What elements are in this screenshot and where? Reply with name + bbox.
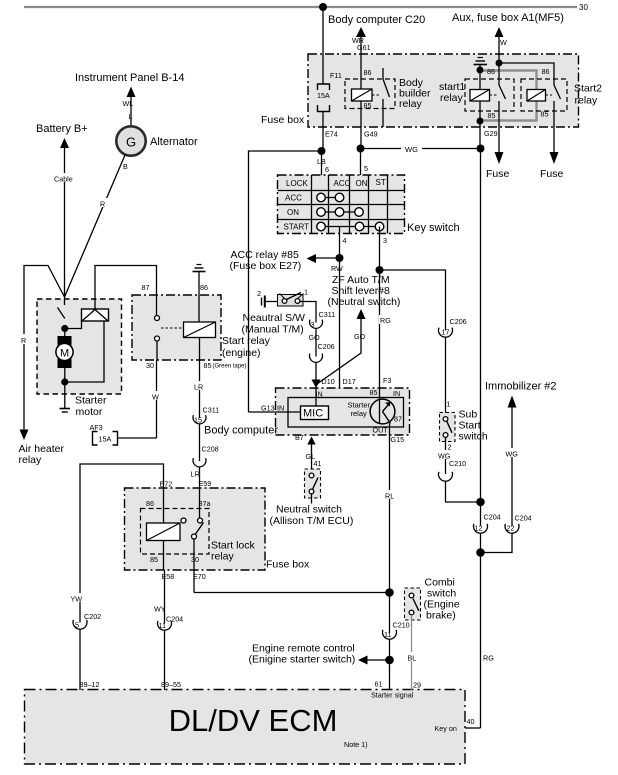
svg-text:Start2: Start2 — [574, 83, 602, 95]
svg-text:85: 85 — [204, 361, 212, 370]
fuse box (start lock relay) background — [125, 488, 266, 570]
svg-text:89–12: 89–12 — [80, 680, 100, 689]
svg-text:DL/DV ECM: DL/DV ECM — [169, 703, 338, 738]
arrow down to Fuse (start1 out) — [495, 152, 504, 164]
svg-text:motor: motor — [76, 406, 103, 418]
svg-text:relay: relay — [440, 92, 464, 104]
svg-text:Body computer C20: Body computer C20 — [328, 14, 425, 26]
node RL/E70 — [385, 588, 394, 597]
svg-text:ST: ST — [376, 178, 386, 187]
svg-text:89–55: 89–55 — [161, 680, 181, 689]
svg-text:(Manual T/M): (Manual T/M) — [242, 324, 304, 336]
neutral S/W terminal symbol — [262, 296, 278, 308]
node WG junction right — [477, 145, 485, 153]
svg-text:87a: 87a — [199, 499, 211, 508]
svg-text:G13: G13 — [261, 404, 275, 413]
wire E70 across to RL node — [194, 592, 390, 594]
svg-text:Instrument Panel B-14: Instrument Panel B-14 — [75, 72, 184, 84]
wire solenoid to 87 — [95, 266, 157, 316]
svg-text:Alternator: Alternator — [150, 136, 198, 148]
svg-text:C204: C204 — [515, 514, 532, 523]
wire RL node to C210 — [389, 593, 391, 634]
node engine remote branch — [385, 656, 394, 665]
svg-text:(Neutral switch): (Neutral switch) — [328, 296, 401, 308]
ground (starter motor) — [64, 382, 66, 408]
svg-text:C311: C311 — [203, 406, 220, 415]
svg-text:86: 86 — [146, 499, 154, 508]
svg-text:15A: 15A — [99, 435, 112, 444]
wire E58 WY down to ECM — [153, 603, 172, 614]
wire G49 to key switch pin5 — [360, 149, 362, 176]
fuse box (top) background — [308, 54, 579, 127]
svg-text:MIC: MIC — [303, 408, 323, 420]
svg-text:29: 29 — [413, 681, 421, 690]
wire to C208 — [199, 424, 201, 461]
wire C206 to sub start pin1 — [445, 337, 447, 413]
svg-text:ON: ON — [287, 208, 299, 217]
svg-text:ON: ON — [356, 179, 368, 188]
svg-text:WL: WL — [123, 99, 134, 108]
svg-text:BL: BL — [408, 654, 417, 663]
arrow to Body computer C20 (WR wire) — [356, 27, 366, 37]
wire D10 to MIC — [315, 388, 317, 406]
MIC box — [301, 406, 329, 420]
connector C206 pin17 — [439, 328, 453, 338]
starter motor contact node (top) — [61, 325, 68, 332]
wire YW loop to E72 — [80, 464, 164, 623]
svg-text:relay: relay — [19, 454, 43, 466]
body builder relay contact — [382, 68, 384, 79]
svg-text:15A: 15A — [317, 91, 330, 100]
connector C206 (GO wire) — [309, 354, 322, 363]
svg-text:START: START — [284, 223, 310, 232]
svg-text:85: 85 — [370, 388, 378, 397]
svg-text:61: 61 — [375, 680, 383, 689]
start relay (engine) coil — [184, 322, 216, 338]
wire sub start pin2 to C210 — [445, 438, 447, 475]
svg-text:Immobilizer #2: Immobilizer #2 — [485, 381, 557, 393]
svg-text:relay: relay — [351, 409, 368, 418]
key switch table grid — [278, 175, 405, 234]
wire OUT/G15 down (RL) — [389, 424, 391, 593]
svg-text:Fuse: Fuse — [540, 168, 564, 180]
start relay (engine) contacts — [155, 316, 160, 321]
svg-text:85: 85 — [364, 101, 372, 110]
svg-text:brake): brake) — [426, 610, 456, 622]
svg-text:Fuse box: Fuse box — [261, 114, 305, 126]
svg-text:RG: RG — [483, 654, 494, 663]
connector C208 — [193, 458, 206, 467]
wire key switch pin3 down — [379, 227, 381, 271]
svg-text:C206: C206 — [450, 317, 467, 326]
solenoid symbol — [82, 309, 109, 321]
svg-text:1: 1 — [447, 400, 451, 409]
svg-text:IN: IN — [393, 389, 400, 398]
svg-text:Neautral S/W: Neautral S/W — [243, 312, 306, 324]
neutral S/W (Manual T/M) switch — [257, 288, 308, 307]
wire WG main vertical (right) — [480, 149, 482, 527]
node pin3 branch — [376, 266, 384, 274]
svg-text:AF3: AF3 — [90, 423, 103, 432]
starter motor switch lever — [58, 308, 65, 319]
svg-text:RG: RG — [380, 316, 391, 325]
starter motor contact node (bottom) — [61, 378, 68, 385]
svg-text:Neutral switch: Neutral switch — [276, 504, 342, 516]
svg-text:G61: G61 — [357, 43, 371, 52]
svg-text:41: 41 — [314, 459, 322, 468]
svg-text:G49: G49 — [364, 130, 378, 139]
svg-text:relay: relay — [399, 98, 423, 110]
svg-text:30: 30 — [579, 3, 588, 12]
svg-text:LR: LR — [191, 470, 200, 479]
svg-text:C208: C208 — [202, 445, 219, 454]
svg-text:YW: YW — [71, 595, 83, 604]
svg-text:G29: G29 — [484, 129, 498, 138]
svg-text:LR: LR — [194, 383, 203, 392]
wire C206 to D10 — [315, 363, 317, 382]
svg-text:Note 1): Note 1) — [344, 740, 368, 749]
wire GO segment — [315, 329, 317, 357]
svg-text:5: 5 — [364, 164, 368, 173]
starter motor box — [37, 299, 122, 394]
wire neutral S/W pin1 to C311/3 — [300, 302, 316, 323]
neutral switch (Allison T/M ECU) — [305, 469, 321, 504]
wire alternator to starter junction — [65, 155, 126, 297]
node RW — [336, 254, 344, 262]
svg-text:E59: E59 — [199, 479, 212, 488]
svg-text:85: 85 — [150, 555, 158, 564]
svg-text:Cable: Cable — [54, 175, 73, 184]
wire LB to key switch pin6 — [321, 151, 323, 175]
svg-text:E70: E70 — [193, 572, 206, 581]
svg-text:Fuse: Fuse — [486, 168, 510, 180]
svg-text:1: 1 — [304, 288, 308, 297]
svg-text:12: 12 — [475, 524, 483, 533]
svg-text:L: L — [129, 112, 133, 121]
svg-text:4: 4 — [343, 236, 347, 245]
svg-text:2: 2 — [257, 289, 261, 298]
ground above 86 — [193, 265, 206, 272]
svg-text:B: B — [123, 162, 128, 171]
svg-text:B7: B7 — [295, 433, 304, 442]
node LB junction — [318, 147, 326, 155]
svg-text:G15: G15 — [391, 435, 405, 444]
body builder relay K1 (dashed outline) — [345, 79, 395, 109]
start2 relay — [521, 67, 602, 152]
wire+arrow to ACC relay — [315, 257, 340, 259]
svg-text:W: W — [500, 38, 507, 47]
svg-text:40: 40 — [467, 717, 475, 726]
svg-text:Starter: Starter — [75, 395, 107, 407]
bus line 30 (top) — [24, 6, 577, 8]
svg-text:3: 3 — [311, 320, 315, 329]
node WG junction left — [357, 145, 365, 153]
wire RG down to ECM pin40 — [482, 652, 496, 663]
wire LR to E59 — [199, 467, 201, 521]
start1 relay contact (W feed) — [498, 63, 500, 85]
wire to WG node — [446, 482, 481, 503]
body computer box — [276, 388, 410, 435]
svg-text:OUT: OUT — [373, 426, 389, 435]
svg-text:17: 17 — [442, 328, 450, 337]
body builder relay coil — [352, 89, 373, 101]
node W feed — [496, 60, 503, 67]
svg-text:Starter signal: Starter signal — [371, 691, 414, 700]
wire motor vertical — [64, 329, 66, 383]
wire BL combi to ECM pin29 — [411, 615, 413, 690]
svg-text:relay: relay — [575, 95, 599, 107]
svg-text:(Enigine starter switch): (Enigine starter switch) — [249, 654, 356, 666]
svg-text:(Green tape): (Green tape) — [213, 364, 247, 370]
svg-text:(engine): (engine) — [222, 347, 261, 359]
svg-text:30: 30 — [146, 361, 154, 370]
svg-text:W: W — [152, 393, 159, 402]
start lock relay inner box — [141, 509, 210, 555]
svg-text:C210: C210 — [449, 459, 466, 468]
combi switch — [405, 588, 421, 620]
wire: coil 85 to G49 / WG node — [360, 101, 362, 149]
svg-text:relay: relay — [211, 551, 235, 563]
wire R to air heater relay — [24, 266, 65, 431]
svg-text:30: 30 — [191, 555, 199, 564]
alternator G — [116, 126, 145, 155]
svg-text:switch: switch — [459, 431, 488, 443]
svg-text:Start relay: Start relay — [222, 335, 271, 347]
svg-text:E58: E58 — [162, 572, 175, 581]
connector C311 pin15 — [193, 415, 206, 424]
svg-text:87: 87 — [142, 283, 150, 292]
start lock relay coil — [147, 523, 181, 541]
arrow up to ZF (GO wire) — [357, 309, 366, 319]
svg-text:WG: WG — [506, 450, 519, 459]
svg-text:(Allison T/M ECU): (Allison T/M ECU) — [270, 515, 354, 527]
svg-text:C204: C204 — [166, 615, 183, 624]
body computer inner box — [288, 398, 404, 428]
svg-text:86: 86 — [542, 67, 550, 76]
wire G13 into MIC — [249, 411, 301, 413]
svg-text:86: 86 — [364, 68, 372, 77]
node on line 30 — [319, 3, 327, 11]
motor M (starter) — [58, 336, 72, 368]
svg-text:6: 6 — [325, 165, 329, 174]
svg-text:GO: GO — [309, 333, 321, 342]
svg-text:Body computer: Body computer — [204, 425, 278, 437]
svg-text:86: 86 — [487, 67, 495, 76]
svg-text:E72: E72 — [160, 480, 173, 489]
svg-text:3: 3 — [383, 236, 387, 245]
node C204 join — [476, 548, 485, 557]
svg-text:C206: C206 — [318, 342, 335, 351]
svg-text:86: 86 — [200, 283, 208, 292]
start lock relay contacts — [196, 523, 204, 535]
svg-text:Aux, fuse box A1(MF5): Aux, fuse box A1(MF5) — [452, 12, 564, 24]
key switch box background — [278, 175, 405, 234]
arrow into D10 — [312, 380, 321, 389]
node WG/sub start — [476, 498, 485, 507]
wire branch to C206/17 and sub start switch — [380, 270, 446, 331]
svg-text:22: 22 — [507, 524, 515, 533]
start relay (engine) box — [132, 295, 221, 360]
DL/DV ECM box — [25, 690, 466, 765]
svg-text:15: 15 — [194, 416, 202, 425]
start1 relay ground — [474, 58, 488, 71]
wire: line30 to fuse F11 — [322, 7, 324, 84]
wire LR start relay 85 down — [199, 360, 201, 418]
svg-text:GO: GO — [354, 332, 366, 341]
svg-text:5: 5 — [75, 621, 79, 630]
wire W to start2 contact — [499, 63, 554, 85]
wire key switch pin4 down to D17 — [339, 227, 341, 389]
svg-text:Key on: Key on — [435, 724, 457, 733]
wire: node 86 to start1 coil — [479, 70, 481, 90]
svg-text:IN: IN — [316, 390, 323, 399]
start1 relay — [439, 67, 514, 149]
svg-text:C311: C311 — [319, 310, 336, 319]
svg-text:WG: WG — [405, 145, 418, 154]
wire solenoid loop right — [65, 321, 104, 382]
svg-text:D10: D10 — [322, 377, 335, 386]
wire solenoid loop left — [65, 321, 82, 329]
arrow down to Fuse (start2 out) — [550, 152, 559, 164]
wire YW down to ECM — [70, 593, 87, 604]
svg-text:Key switch: Key switch — [407, 222, 460, 234]
svg-text:M: M — [60, 348, 69, 360]
svg-text:ACC: ACC — [285, 194, 302, 203]
svg-text:LOCK: LOCK — [286, 179, 308, 188]
svg-text:11: 11 — [384, 630, 391, 639]
svg-text:(Fuse box E27): (Fuse box E27) — [230, 260, 302, 272]
wire branch to G13 (left drop) — [249, 151, 322, 412]
svg-text:F11: F11 — [330, 71, 342, 80]
svg-text:R: R — [100, 200, 105, 209]
svg-text:E74: E74 — [325, 130, 338, 139]
svg-text:87: 87 — [394, 415, 402, 424]
connector C210 (sub start) — [439, 472, 453, 481]
wire RG pin3 down to F3 — [379, 270, 381, 388]
svg-text:ACC: ACC — [334, 179, 351, 188]
svg-text:RW: RW — [331, 264, 343, 273]
wire WG horizontal — [361, 148, 402, 150]
connector C311 pin3 — [309, 320, 322, 329]
svg-text:Fuse box: Fuse box — [266, 559, 310, 571]
svg-text:C202: C202 — [84, 612, 101, 621]
svg-text:Battery B+: Battery B+ — [36, 123, 88, 135]
svg-text:C210: C210 — [393, 621, 410, 630]
svg-text:C204: C204 — [484, 513, 501, 522]
svg-text:D17: D17 — [343, 377, 356, 386]
wire W down to AF3 — [156, 360, 158, 438]
svg-text:R: R — [21, 336, 26, 345]
svg-text:85: 85 — [488, 111, 496, 120]
svg-text:85: 85 — [541, 110, 549, 119]
svg-text:F3: F3 — [383, 376, 391, 385]
svg-text:G: G — [126, 135, 136, 150]
svg-text:RL: RL — [385, 492, 394, 501]
svg-text:IN: IN — [277, 404, 284, 413]
gray highlighted path start1-86 to start2 coil to start1-85 — [480, 71, 537, 121]
